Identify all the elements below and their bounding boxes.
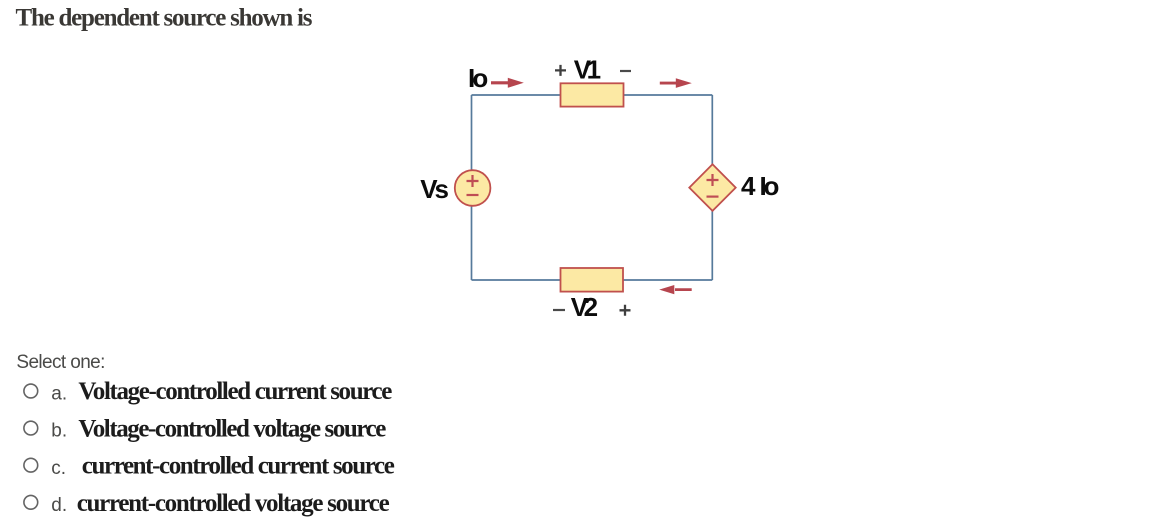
wire top xyxy=(472,94,713,96)
wire left xyxy=(471,95,473,280)
svg-text:Voltage-controlled voltage sou: Voltage-controlled voltage source xyxy=(78,415,386,442)
current arrow top right xyxy=(660,78,692,88)
current arrow bottom xyxy=(659,285,692,294)
polarity + for V2 xyxy=(620,305,631,316)
radio button b xyxy=(24,421,38,435)
svg-text:Io: Io xyxy=(468,63,487,93)
wire bottom xyxy=(472,279,713,281)
svg-text:V2: V2 xyxy=(571,292,598,322)
dependent voltage source 4Io xyxy=(689,164,735,211)
svg-text:V1: V1 xyxy=(574,54,601,84)
polarity + for V1 xyxy=(555,65,566,76)
svg-text:current-controlled current sou: current-controlled current source xyxy=(82,453,395,480)
svg-text:b.: b. xyxy=(51,421,67,442)
resistor V1 xyxy=(561,83,624,106)
svg-text:4Io: 4Io xyxy=(741,171,779,201)
independent voltage source Vs xyxy=(455,170,491,206)
wire right xyxy=(711,95,713,280)
resistor V2 xyxy=(561,268,624,292)
polarity − for V1 xyxy=(620,70,631,72)
svg-text:Voltage-controlled current sou: Voltage-controlled current source xyxy=(78,378,392,405)
svg-text:The dependent source shown is: The dependent source shown is xyxy=(16,5,313,32)
svg-text:Select one:: Select one: xyxy=(16,352,105,373)
svg-text:current-controlled voltage sou: current-controlled voltage source xyxy=(77,490,390,517)
svg-text:c.: c. xyxy=(51,458,66,479)
svg-text:Vs: Vs xyxy=(420,174,448,204)
svg-text:a.: a. xyxy=(51,383,67,404)
polarity − for V2 xyxy=(553,309,565,311)
radio button a xyxy=(24,384,38,398)
radio button c xyxy=(24,458,38,472)
svg-text:d.: d. xyxy=(51,495,67,516)
current arrow Io xyxy=(491,78,524,88)
radio button d xyxy=(24,495,38,509)
